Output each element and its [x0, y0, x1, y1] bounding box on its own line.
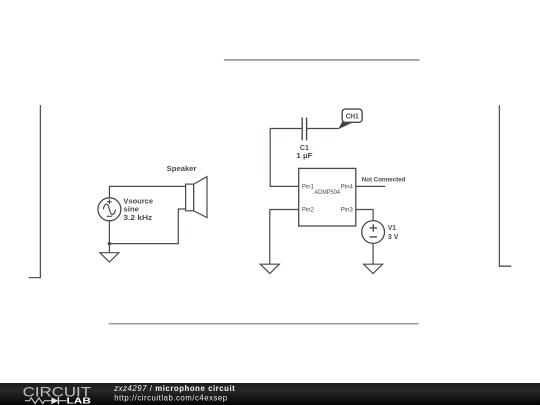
svg-text:Not Connected: Not Connected: [362, 176, 406, 183]
wire Pin4 not connected stub: [356, 185, 385, 187]
voltage source V (Vsource sine): [98, 198, 121, 221]
svg-text:1 µF: 1 µF: [296, 153, 313, 160]
svg-text:Pin1: Pin1: [302, 185, 315, 191]
svg-text:Pin3: Pin3: [341, 208, 354, 214]
logo resistor zigzag: [25, 398, 52, 404]
wire Vsource bottom to ground: [108, 221, 110, 253]
capacitor C1: [302, 118, 306, 141]
wire V1 bottom to ground: [372, 243, 374, 264]
wire Speaker bottom to node A: [109, 209, 185, 244]
node A junction dot: [108, 242, 111, 245]
footer bar: [0, 383, 540, 405]
svg-text:C1: C1: [300, 145, 309, 152]
ground under V1: [364, 264, 383, 273]
svg-text:Pin4: Pin4: [341, 185, 354, 191]
ground under Pin2: [260, 264, 279, 273]
wire right bracket: [499, 105, 511, 266]
label Vsource sine 3.2 kHz: [123, 198, 153, 221]
svg-text:Pin2: Pin2: [302, 208, 315, 214]
op-amp U1 ADMP504 box: [299, 168, 356, 226]
probe flag CH1: [338, 109, 362, 129]
label V1 3 V: [388, 225, 399, 241]
svg-text:3 V: 3 V: [388, 234, 399, 241]
logo diode: [51, 397, 66, 404]
svg-text:ADMP504: ADMP504: [314, 189, 340, 196]
wire Pin3 to V1: [356, 210, 373, 221]
svg-text:Vsource: Vsource: [123, 198, 153, 205]
voltage source V1 3V: [362, 221, 385, 244]
svg-text:zxz4297 / microphone circuit: zxz4297 / microphone circuit: [113, 384, 235, 393]
wire bottom border segment: [109, 323, 419, 325]
svg-text:sine: sine: [123, 207, 139, 214]
svg-text:CH1: CH1: [346, 114, 359, 121]
svg-text:LAB: LAB: [67, 395, 91, 405]
svg-text:http://circuitlab.com/c4exsep: http://circuitlab.com/c4exsep: [114, 394, 228, 403]
wire C1 right to CH1 probe: [307, 128, 339, 130]
svg-text:V1: V1: [388, 225, 396, 232]
wire top border segment: [224, 59, 419, 61]
label C1 1 uF: [296, 145, 313, 160]
ground under node A: [100, 253, 119, 262]
svg-text:3.2 kHz: 3.2 kHz: [123, 215, 152, 222]
wire C1 left to Pin1: [270, 129, 302, 187]
wire Vsource top to Speaker top: [109, 186, 185, 197]
speaker SPKR1: [186, 177, 207, 218]
wire left bracket: [29, 105, 41, 278]
svg-text:Speaker: Speaker: [167, 166, 197, 173]
wire Pin2 to ground: [270, 210, 299, 265]
